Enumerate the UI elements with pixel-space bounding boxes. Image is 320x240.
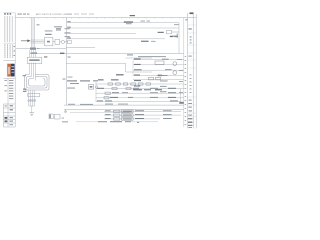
wire terminal circles xyxy=(28,100,36,102)
small device box in band xyxy=(89,85,94,90)
terminal strip box xyxy=(28,93,40,96)
main horizontal bus xyxy=(16,48,184,54)
band rung lines xyxy=(96,82,184,102)
bottom bus lines xyxy=(64,105,184,112)
overload box xyxy=(53,39,62,44)
starter label xyxy=(45,34,51,35)
relay contact boxes row1 xyxy=(108,83,151,85)
label above junction box xyxy=(44,56,47,57)
band left specks xyxy=(63,79,99,89)
bottom row line xyxy=(76,121,158,123)
specks above bus xyxy=(80,103,93,106)
junction blob right xyxy=(179,102,183,104)
frame tick marks xyxy=(22,18,179,19)
labels above cluster xyxy=(45,28,71,37)
upper-right feeder lines xyxy=(67,23,179,54)
right title strip xyxy=(187,13,196,128)
control rows right block xyxy=(133,60,184,80)
bus label xyxy=(60,53,64,54)
right end terminal circles xyxy=(173,62,177,75)
company logo xyxy=(7,63,15,77)
incoming power label xyxy=(124,15,135,24)
lower rung specks xyxy=(97,88,178,102)
strip-left small column xyxy=(185,56,187,125)
riser label specks xyxy=(68,57,73,78)
row5 boxes xyxy=(149,77,161,80)
bottom-left stamp block xyxy=(3,104,15,127)
control transformer enclosure xyxy=(66,58,152,72)
ground at bus left xyxy=(64,109,67,112)
svg-text:MCC-1 MOTOR CONTROL CENTER: MCC-1 MOTOR CONTROL CENTER xyxy=(36,14,72,16)
motor junction box xyxy=(27,57,42,63)
left table frame line xyxy=(3,13,15,127)
wire bundle horizontal xyxy=(31,40,45,43)
ground symbol xyxy=(30,113,34,116)
sheet border top frame xyxy=(15,17,196,19)
revisions header text xyxy=(18,13,30,16)
arrow on wire bundle xyxy=(21,40,28,42)
wires join bar xyxy=(29,106,35,113)
feeder vertical wires from top xyxy=(31,18,34,49)
cable slack loops xyxy=(25,75,50,91)
wires box to loops xyxy=(29,50,35,81)
control row text specks xyxy=(98,59,142,87)
small device box right of CT xyxy=(68,40,72,43)
relay row2 boxes xyxy=(112,88,131,90)
drawing area right border xyxy=(183,18,185,127)
arrow under cluster xyxy=(37,48,39,50)
specks above line1 xyxy=(141,21,180,26)
lower rung boxes xyxy=(104,92,110,99)
band junction blob xyxy=(158,75,163,77)
motor starter box M1 xyxy=(45,37,53,45)
device cluster mid right xyxy=(167,30,180,33)
line end labels left xyxy=(67,21,70,38)
legend boxes xyxy=(49,114,60,119)
CT circle xyxy=(61,40,67,43)
left table top line xyxy=(3,12,15,14)
right labels near strip xyxy=(160,59,183,93)
junction blob xyxy=(30,48,36,50)
right mid device box xyxy=(155,61,164,64)
riser to lower bus xyxy=(65,18,67,106)
bottom device rows xyxy=(104,111,181,119)
rows left rail xyxy=(132,60,134,76)
left revision table dotted columns xyxy=(5,16,13,42)
left lower stamp table xyxy=(3,79,15,105)
bottom specks row xyxy=(98,121,139,123)
wires loops to terminals xyxy=(29,90,35,106)
enclosure label xyxy=(127,54,133,55)
small circle in band xyxy=(95,86,97,88)
left revision table header marks xyxy=(4,13,11,14)
long label row y56 xyxy=(138,55,166,58)
dark row y89 xyxy=(133,89,162,90)
title strip text marks xyxy=(185,12,193,128)
